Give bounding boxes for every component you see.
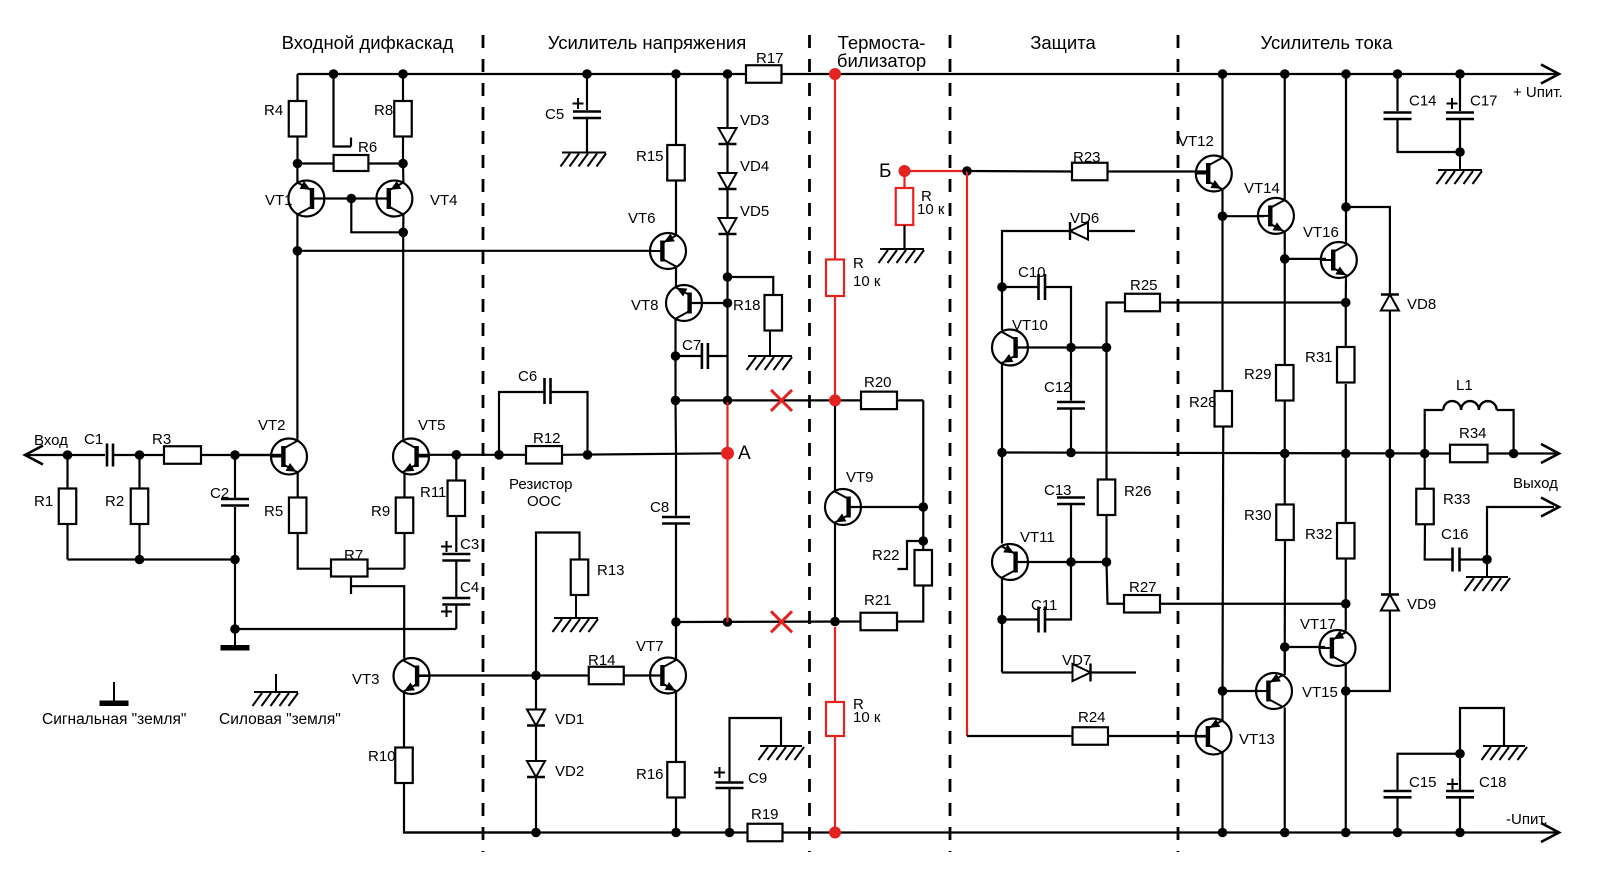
wire VD1-VD2 — [535, 726, 537, 762]
label Сигнальная земля — [42, 711, 186, 728]
wire C12 bottom — [1070, 409, 1072, 453]
wire Б resistor stub (red) — [903, 177, 905, 188]
wire C7 node down to X line — [726, 356, 728, 400]
wire VT9 emitter down — [834, 524, 836, 622]
node VD5 / R18 — [723, 272, 733, 282]
wire R23 to VT12 — [1108, 170, 1208, 172]
wire R2 top — [138, 455, 140, 489]
svg-text:Вход: Вход — [34, 432, 68, 449]
section title Усилитель напряжения — [548, 32, 747, 53]
label C6 — [518, 368, 537, 385]
label C8 — [650, 499, 669, 516]
resistor R31 — [1337, 347, 1355, 383]
wire VT11 base wire — [1016, 561, 1107, 563]
power ground under Б resistor — [879, 249, 925, 263]
wire R15 to VT6 — [675, 181, 677, 236]
svg-text:R11: R11 — [420, 484, 446, 501]
resistor R32 — [1337, 523, 1355, 559]
wire R14 to VT7 base — [624, 674, 662, 676]
resistor R18 — [765, 295, 783, 331]
wire R1 bottom L — [66, 524, 68, 560]
arrow Выход second — [1541, 498, 1559, 517]
wire R31 bottom — [1345, 384, 1347, 454]
diode VD4 — [719, 173, 737, 189]
wire VT2 top lead — [296, 439, 298, 441]
wire VT8 collector down — [674, 320, 676, 357]
resistor R11 — [448, 481, 466, 517]
svg-text:Резистор: Резистор — [509, 476, 573, 493]
svg-text:+ Uпит.: + Uпит. — [1513, 84, 1563, 101]
wire R32 bottom — [1345, 559, 1347, 604]
wire C3 to C4 — [455, 561, 457, 597]
transistor VT15 — [1256, 673, 1292, 709]
wire R6 left node to body — [298, 162, 334, 164]
wire VT17 node to rail — [1345, 691, 1347, 833]
resistor R28 — [1215, 391, 1233, 427]
node VT12 / VT14 base — [1218, 211, 1228, 221]
node rail / R16 — [671, 828, 681, 838]
label А — [738, 443, 751, 464]
label R14 — [588, 652, 616, 669]
wire R9 bottom stub — [403, 533, 405, 569]
wire R7 tap to VT3 collector — [351, 586, 404, 658]
wire R22 tap — [898, 541, 924, 569]
resistor R20 — [861, 392, 897, 410]
wire VD1 top — [535, 676, 537, 710]
svg-text:10 к: 10 к — [853, 709, 881, 726]
resistor R 10k (upper red) — [826, 260, 844, 297]
wire C6 right leg — [551, 392, 588, 455]
capacitor C17 — [1446, 98, 1474, 119]
wire VT14 emitter down — [1284, 232, 1286, 259]
transistor VT11 — [992, 544, 1028, 580]
svg-text:C17: C17 — [1470, 93, 1498, 110]
label VT13 — [1239, 731, 1275, 748]
svg-text:C14: C14 — [1409, 93, 1437, 110]
node R2 bottom — [135, 555, 145, 565]
wire C18 top — [1459, 754, 1461, 791]
label R (low red) — [853, 696, 864, 713]
wire VD6 left leg — [1002, 231, 1070, 287]
wire VT12 emitter down — [1221, 190, 1223, 217]
node output / R33 L1 — [1420, 449, 1430, 459]
diode VD7 — [1073, 664, 1091, 682]
wire VT14 base wire — [1223, 215, 1265, 217]
resistor R23 — [1072, 163, 1108, 181]
node VT1 emitter / VT6 base line — [293, 246, 303, 256]
svg-text:R8: R8 — [374, 102, 393, 119]
wire red rail drop — [834, 74, 836, 260]
wire R26 bottom — [1105, 515, 1107, 562]
wire VT16 collector up — [1345, 207, 1347, 244]
label C2 — [210, 485, 229, 502]
wire R33 top — [1424, 454, 1426, 489]
section title Защита — [1030, 32, 1096, 53]
wire R27 left leg — [1107, 562, 1125, 604]
label 10 к (Б) — [917, 201, 945, 218]
label VD1 — [555, 711, 584, 728]
wire R13 top hook — [536, 533, 580, 676]
svg-text:VD5: VD5 — [740, 203, 769, 220]
section title Входной дифкаскад — [282, 32, 454, 53]
wire A vertical (red) — [726, 402, 728, 622]
node C12 / C13 / output line — [1066, 448, 1076, 458]
wire VT7 emitter to R16 — [675, 692, 677, 763]
wire VT17 emitter down — [1345, 665, 1347, 692]
wire VT9 collector — [834, 406, 836, 490]
wire to second output arrow — [1487, 507, 1554, 560]
section separator dashed line 1 — [482, 35, 485, 852]
svg-text:R20: R20 — [864, 374, 892, 391]
power ground under C5 — [561, 153, 607, 167]
wire VT12 collector to rail — [1221, 74, 1223, 158]
wire R6 tap from rail — [334, 74, 352, 147]
label C3 — [460, 536, 479, 553]
label R18 — [733, 297, 761, 314]
node rail / R6 tap — [329, 69, 339, 79]
wire VT4 node down to VT5 — [402, 232, 404, 438]
wire C4 bottom — [455, 605, 457, 629]
label R24 — [1078, 709, 1106, 726]
svg-text:R6: R6 — [358, 139, 377, 156]
svg-text:VD3: VD3 — [740, 112, 769, 129]
svg-text:R9: R9 — [371, 503, 390, 520]
wire R30 top — [1284, 454, 1286, 505]
capacitor C6 — [545, 378, 551, 404]
transistor VT8 — [666, 285, 702, 321]
wire VD1 node to R14 — [536, 674, 589, 676]
resistor R7 — [331, 560, 368, 577]
label R9 — [371, 503, 390, 520]
transistor VT2 — [271, 439, 307, 475]
wire VT2 base wire — [235, 454, 283, 456]
wire VT15 collector up — [1284, 647, 1286, 675]
node VD8 / output — [1385, 449, 1395, 459]
wire output line after R34 — [1488, 452, 1558, 454]
wire C18 to ground hook — [1460, 708, 1504, 754]
power ground under R18 — [747, 331, 793, 371]
node R26 / VT11 base — [1102, 557, 1112, 567]
svg-text:R21: R21 — [864, 592, 892, 609]
label -Uпит. — [1506, 811, 1548, 828]
svg-text:VT12: VT12 — [1178, 133, 1214, 150]
wire ground line to VT3 collector — [235, 628, 456, 630]
svg-text:R22: R22 — [872, 547, 900, 564]
resistor R5 — [289, 498, 307, 534]
label C10 — [1018, 264, 1046, 281]
svg-text:R17: R17 — [756, 50, 784, 67]
svg-text:VT10: VT10 — [1012, 317, 1048, 334]
capacitor C1 — [107, 444, 113, 467]
label VD5 — [740, 203, 769, 220]
node VT3 base / R14 / VD1 — [531, 671, 541, 681]
label VT6 — [628, 210, 656, 227]
label Б — [879, 161, 891, 182]
node rail / thermal (red) — [829, 68, 841, 80]
resistor R21 — [861, 613, 898, 631]
svg-text:C9: C9 — [748, 770, 767, 787]
wire R32 top — [1345, 454, 1347, 524]
transistor VT4 — [376, 181, 412, 217]
label R13 — [597, 562, 625, 579]
wire VT1 base to joint — [312, 197, 351, 199]
transistor VT7 — [650, 658, 686, 694]
node R4 / R6 left — [293, 159, 303, 169]
wire R33 bottom to C16 — [1425, 524, 1453, 559]
svg-text:C10: C10 — [1018, 264, 1046, 281]
diode VD8 — [1381, 295, 1399, 311]
capacitor C3 — [441, 541, 470, 561]
capacitor C14 — [1384, 113, 1412, 120]
node VT8 base / VD line — [723, 298, 733, 308]
svg-text:L1: L1 — [1456, 377, 1473, 394]
wire R20 corner down — [922, 400, 924, 507]
wire C13 bottom — [1070, 505, 1072, 562]
wire red drop to R24 (red) — [966, 171, 968, 736]
svg-text:VT8: VT8 — [631, 297, 659, 314]
node C15 C18 — [1455, 749, 1465, 759]
wire VD node to VT8 base node — [726, 277, 728, 303]
wire VT11 emitter — [1001, 579, 1003, 620]
wire C2 top — [234, 455, 236, 498]
node rail / C15 — [1393, 828, 1403, 838]
wire L1 left leg — [1425, 410, 1444, 454]
node R8 / R6 right — [398, 159, 408, 169]
wire rail to VD3 — [726, 74, 728, 128]
node R12 left — [494, 450, 504, 460]
transistor VT6 — [650, 233, 686, 269]
resistor R2 — [131, 489, 149, 525]
diode VD3 — [719, 128, 737, 144]
power ground under R13 — [553, 595, 599, 632]
wire C8 bottom — [675, 524, 677, 622]
svg-text:VT2: VT2 — [258, 417, 286, 434]
section title Термоста- (line 1) — [838, 32, 926, 53]
wire VT15 emitter down — [1284, 708, 1286, 833]
svg-text:R27: R27 — [1129, 579, 1157, 596]
node VT16 emitter / R25 / R31 — [1341, 298, 1351, 308]
label VT7 — [636, 638, 664, 655]
svg-text:VD9: VD9 — [1407, 596, 1436, 613]
svg-text:C2: C2 — [210, 485, 229, 502]
label VD8 — [1407, 296, 1436, 313]
wire R24 to VT13 base — [1108, 735, 1207, 737]
section title Усилитель тока — [1260, 32, 1393, 53]
node R3 / C2 — [230, 450, 240, 460]
wire R20R22 link — [922, 507, 924, 550]
wire rail to R15 — [675, 74, 677, 145]
wire R27 to VT17 line — [1160, 603, 1346, 605]
capacitor C10 — [1039, 274, 1046, 300]
wire R3 to VT2 base — [201, 454, 283, 456]
wire R1 top — [66, 455, 68, 489]
wire input to C1 — [25, 454, 105, 456]
wire R4 bottom to node — [296, 137, 298, 164]
node input / R1 — [63, 450, 73, 460]
capacitor C18 — [1446, 779, 1474, 798]
resistor R14 — [589, 667, 624, 685]
label R8 — [374, 102, 393, 119]
svg-text:Выход: Выход — [1513, 475, 1558, 492]
transistor VT5 — [393, 439, 429, 475]
wire VT14 collector to rail — [1284, 74, 1286, 200]
label C18 — [1479, 774, 1507, 791]
label C9 — [748, 770, 767, 787]
power ground under C16 — [1465, 560, 1511, 592]
label R6 — [358, 139, 377, 156]
diode VD6 — [1070, 222, 1088, 240]
wire C14 top — [1396, 74, 1398, 111]
label R26 — [1124, 483, 1152, 500]
wire R16 to bottom rail — [675, 798, 677, 833]
wire VT8 node to X line — [674, 356, 676, 400]
node VT1 VT4 bases — [347, 194, 357, 204]
svg-text:VD8: VD8 — [1407, 296, 1436, 313]
node VT11 emitter / C11 — [997, 615, 1007, 625]
label C12 — [1044, 379, 1072, 396]
wire VT7 collector up — [675, 622, 677, 660]
svg-text:R12: R12 — [533, 430, 561, 447]
svg-text:R34: R34 — [1459, 425, 1487, 442]
svg-text:ООС: ООС — [527, 493, 561, 510]
wire R25 to VT16 emitter node — [1160, 301, 1346, 303]
wire node to R29 — [1284, 259, 1286, 365]
label R34 — [1459, 425, 1487, 442]
node VT17 emitter / VD9 — [1341, 686, 1351, 696]
node X-line left — [671, 396, 681, 406]
label R30 — [1244, 507, 1272, 524]
power ground legend symbol — [253, 674, 299, 706]
label VT10 — [1012, 317, 1048, 334]
resistor R10 — [395, 748, 413, 784]
transistor VT17 — [1320, 630, 1356, 666]
svg-text:R: R — [853, 255, 864, 272]
wire C10 right leg — [1045, 287, 1071, 348]
wire VT5 emitter to R9 — [403, 473, 405, 498]
node rail / C14 — [1393, 69, 1403, 79]
wire rail to C5 — [586, 74, 588, 110]
arrow input Вход — [25, 446, 43, 465]
label R (Б) — [921, 188, 932, 205]
node R32 / R27 / VT17 coll — [1341, 599, 1351, 609]
wire red to X node — [834, 296, 836, 400]
wire VT10 base wire — [1016, 346, 1107, 348]
label R33 — [1443, 491, 1471, 508]
wire Б node to R23 — [967, 170, 1072, 173]
capacitor C8 — [662, 517, 690, 524]
node rail / VT15 — [1280, 828, 1290, 838]
resistor R13 — [571, 560, 589, 596]
wire node to VT17 collector — [1345, 604, 1347, 631]
svg-text:R26: R26 — [1124, 483, 1152, 500]
label VT3 — [352, 671, 380, 688]
wire R7 right to R9 bottom — [368, 568, 405, 570]
svg-text:R15: R15 — [636, 148, 664, 165]
transistor VT3 — [394, 658, 430, 694]
wire C2 bottom — [234, 507, 236, 560]
wire node down to VT2 — [296, 251, 298, 439]
node rail / VT14 — [1280, 69, 1290, 79]
svg-text:VD4: VD4 — [740, 158, 769, 175]
label C4 — [460, 579, 479, 596]
svg-text:R2: R2 — [105, 493, 124, 510]
svg-text:C13: C13 — [1044, 482, 1072, 499]
label VD2 — [555, 763, 584, 780]
svg-text:А: А — [738, 443, 751, 464]
wire VT4 bottom lead — [402, 215, 404, 233]
svg-text:C5: C5 — [545, 106, 564, 123]
wire R18 top — [728, 277, 774, 295]
wire VD4-VD5 — [726, 189, 728, 218]
label VT12 — [1178, 133, 1214, 150]
node VT5 base / R11 / R12 line — [452, 450, 462, 460]
svg-text:C3: C3 — [460, 536, 479, 553]
label C5 — [545, 106, 564, 123]
node C1 / R2 / R3 — [135, 450, 145, 460]
wire C5 to ground — [586, 118, 588, 152]
wire C15 top hook — [1398, 754, 1461, 791]
node rail / R15 — [671, 69, 681, 79]
label R4 — [264, 102, 283, 119]
node red/black Б line — [962, 166, 972, 176]
label R29 — [1244, 366, 1272, 383]
wire VT16 emitter down — [1345, 276, 1347, 303]
wire R8 bottom to node — [402, 137, 404, 164]
label VT5 — [418, 417, 446, 434]
resistor R27 — [1124, 595, 1160, 613]
wire R5 bottom to R7 — [298, 533, 331, 569]
svg-text:Входной дифкаскад: Входной дифкаскад — [282, 32, 454, 53]
wire R25 left leg — [1107, 303, 1126, 348]
wire C2 node down — [234, 560, 236, 630]
wire C7 right wire — [708, 355, 728, 357]
wire VD7 right lead — [1091, 671, 1137, 673]
power ground above C18 — [1482, 746, 1528, 760]
label 10 к (low red) — [853, 709, 881, 726]
capacitor C4 — [441, 598, 470, 617]
transistor VT10 — [992, 330, 1028, 366]
diode VD9 — [1381, 595, 1399, 611]
node C16 / ground / arrow — [1482, 555, 1492, 565]
svg-text:R32: R32 — [1305, 526, 1333, 543]
label L1 — [1456, 377, 1473, 394]
label VT14 — [1244, 180, 1280, 197]
section title билизатор (line 2) — [837, 50, 926, 71]
svg-text:R19: R19 — [751, 806, 779, 823]
label VT4 — [430, 192, 458, 209]
wire VT6 emitter to VT8 — [675, 267, 677, 287]
label C1 — [84, 431, 103, 448]
svg-text:R23: R23 — [1073, 149, 1101, 166]
wire upper X line — [676, 399, 862, 401]
wire R30 bottom — [1284, 541, 1286, 648]
wire VT13 emitter down — [1221, 753, 1223, 833]
svg-text:VT9: VT9 — [846, 469, 874, 486]
label R19 — [751, 806, 779, 823]
node rail / R8 top — [398, 69, 408, 79]
svg-text:C4: C4 — [460, 579, 479, 596]
svg-text:R5: R5 — [264, 503, 283, 520]
label VT15 — [1302, 684, 1338, 701]
svg-text:R4: R4 — [264, 102, 283, 119]
signal ground under C2 — [221, 629, 250, 651]
svg-text:Силовая "земля": Силовая "земля" — [219, 711, 341, 728]
node VT10 base / R26 — [1102, 343, 1112, 353]
wire L1 right leg — [1497, 410, 1514, 454]
wire C14 bottom hook — [1398, 119, 1461, 152]
resistor R22 — [915, 550, 933, 586]
wire VT8 base to VD line — [690, 302, 728, 304]
